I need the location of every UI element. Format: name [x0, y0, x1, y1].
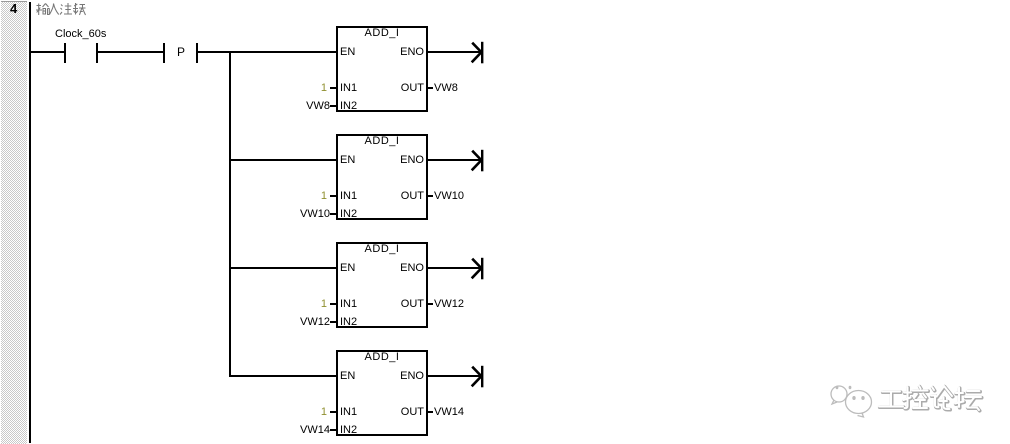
power rail	[29, 2, 31, 443]
U1 pin IN2	[340, 101, 357, 112]
network number 4	[10, 2, 17, 15]
U3 pin ENO	[384, 263, 424, 274]
U1 continuation arrow	[467, 40, 487, 65]
U2 pin IN2	[340, 209, 357, 220]
U4 continuation arrow	[467, 364, 487, 389]
U4 IN2 stub	[330, 429, 336, 431]
U2 pin EN	[340, 155, 355, 166]
branch wire to block 3 EN	[231, 267, 336, 269]
U4 pin OUT	[384, 407, 424, 418]
function block ADD_I U3 box	[336, 242, 428, 328]
U1 IN2 operand VW8	[300, 101, 330, 112]
U3 IN2 operand VW12	[300, 317, 330, 328]
U2 pin OUT	[384, 191, 424, 202]
U2 IN1 operand 1	[297, 191, 327, 202]
watermark logo 工控论坛	[826, 378, 986, 423]
U4 OUT stub	[428, 411, 433, 413]
U4 IN1 stub	[330, 411, 336, 413]
U4 title ADD_I	[336, 352, 428, 363]
U4 IN1 operand 1	[297, 407, 327, 418]
U1 pin ENO	[384, 47, 424, 58]
U4 pin IN1	[340, 407, 357, 418]
U1 pin EN	[340, 47, 355, 58]
U3 pin OUT	[384, 299, 424, 310]
U4 ENO wire	[428, 375, 480, 377]
U1 OUT stub	[428, 87, 433, 89]
contact P right bar	[196, 43, 198, 63]
U3 OUT stub	[428, 303, 433, 305]
contact P letter	[177, 46, 185, 58]
U1 title ADD_I	[336, 28, 428, 39]
function block ADD_I U4 box	[336, 350, 428, 436]
U2 IN1 stub	[330, 195, 336, 197]
U3 IN2 stub	[330, 321, 336, 323]
branch vertical wire	[229, 51, 231, 377]
U2 pin IN1	[340, 191, 357, 202]
network number gutter	[1, 1, 27, 444]
contact P left bar	[163, 43, 165, 63]
wire P contact to block 1 EN	[198, 51, 336, 53]
U2 pin ENO	[384, 155, 424, 166]
U1 IN1 stub	[330, 87, 336, 89]
U3 ENO wire	[428, 267, 480, 269]
U1 OUT operand VW8	[434, 83, 458, 94]
U4 pin IN2	[340, 425, 357, 436]
function block ADD_I U2 box	[336, 134, 428, 220]
U2 IN2 operand VW10	[300, 209, 330, 220]
U1 IN2 stub	[330, 105, 336, 107]
branch wire to block 4 EN	[231, 375, 336, 377]
U4 OUT operand VW14	[434, 407, 464, 418]
U2 OUT operand VW10	[434, 191, 464, 202]
U1 pin OUT	[384, 83, 424, 94]
U4 IN2 operand VW14	[300, 425, 330, 436]
U1 pin IN1	[340, 83, 357, 94]
branch wire to block 2 EN	[231, 159, 336, 161]
U4 pin EN	[340, 371, 355, 382]
U3 pin IN1	[340, 299, 357, 310]
function block ADD_I U1 box	[336, 26, 428, 112]
network comment 输入注释	[36, 3, 88, 16]
U2 title ADD_I	[336, 136, 428, 147]
U3 pin EN	[340, 263, 355, 274]
U2 ENO wire	[428, 159, 480, 161]
U1 ENO wire	[428, 51, 480, 53]
U3 IN1 operand 1	[297, 299, 327, 310]
wire rail to contact	[31, 51, 64, 53]
U3 pin IN2	[340, 317, 357, 328]
U2 continuation arrow	[467, 148, 487, 173]
U3 OUT operand VW12	[434, 299, 464, 310]
contact Clock_60s left bar	[64, 43, 66, 63]
wire contact to P contact	[98, 51, 163, 53]
U2 IN2 stub	[330, 213, 336, 215]
U2 OUT stub	[428, 195, 433, 197]
U1 IN1 operand 1	[297, 83, 327, 94]
contact Clock_60s right bar	[96, 43, 98, 63]
U3 continuation arrow	[467, 256, 487, 281]
U4 pin ENO	[384, 371, 424, 382]
contact Clock_60s label	[55, 29, 106, 40]
U3 IN1 stub	[330, 303, 336, 305]
U3 title ADD_I	[336, 244, 428, 255]
